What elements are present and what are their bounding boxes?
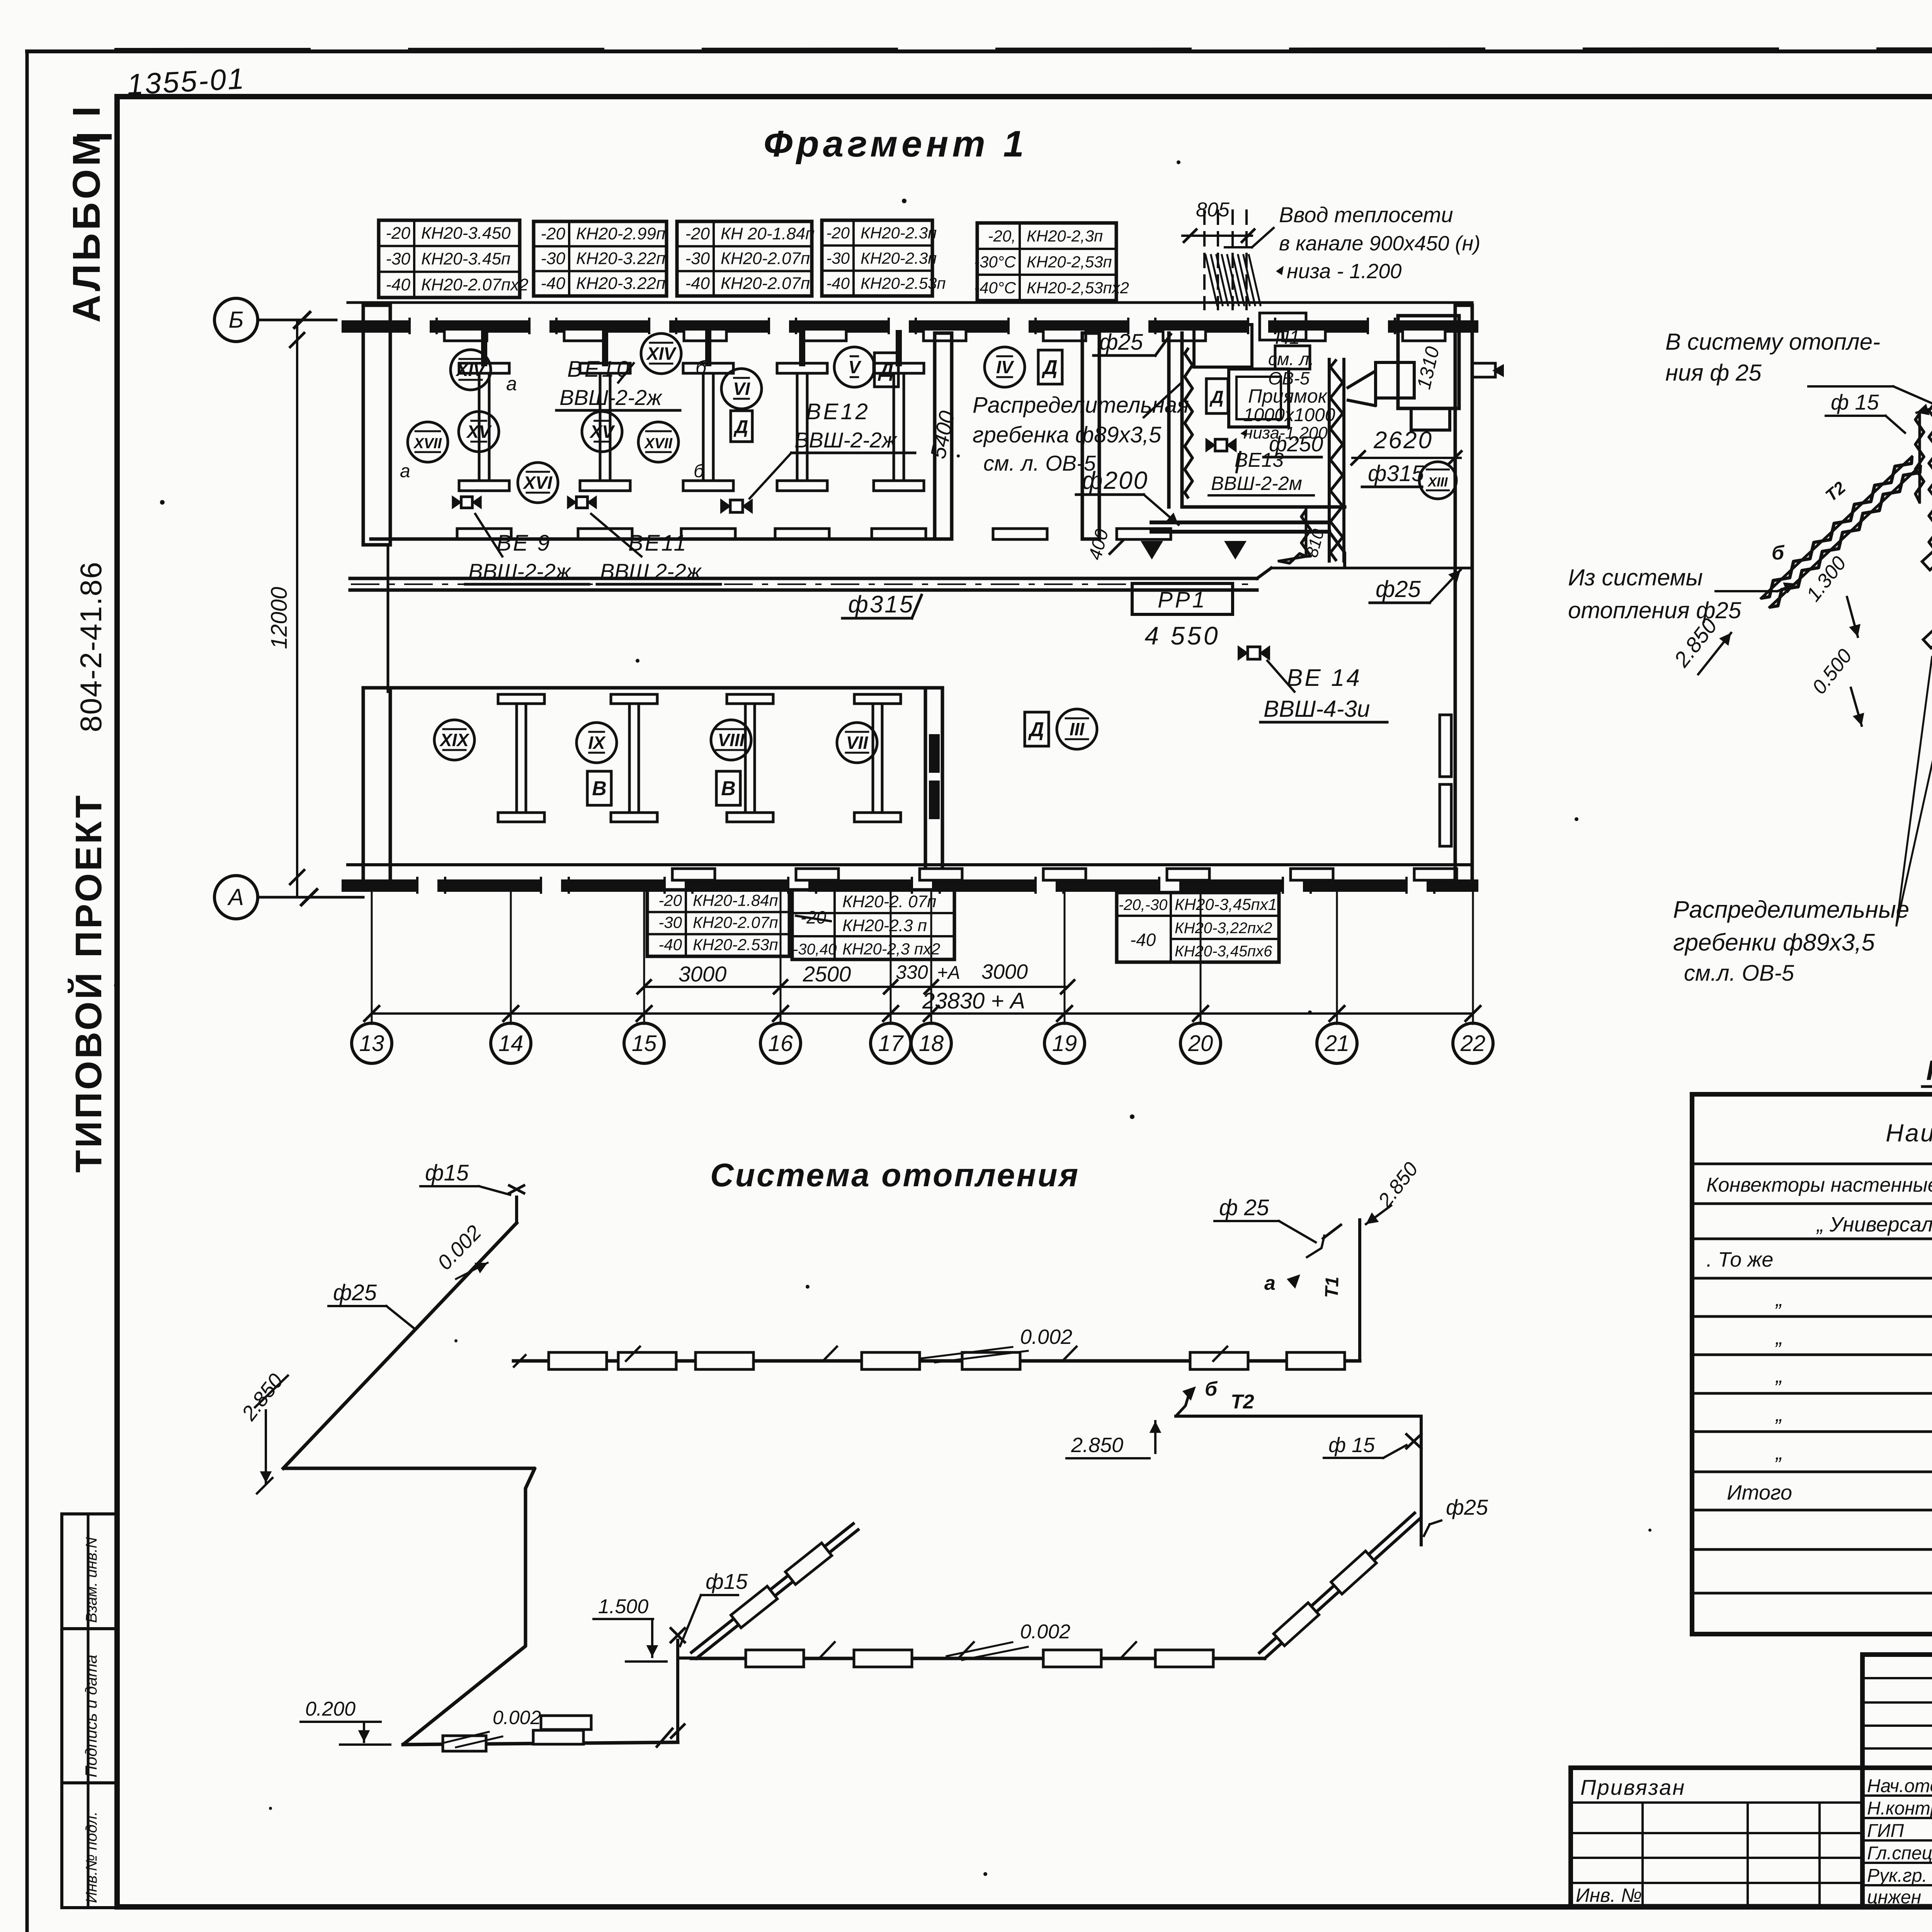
tb mini rows bbox=[1862, 1678, 1932, 1748]
label raspred grebenki bottom bbox=[1669, 575, 1932, 986]
level 0.500 rotated bbox=[1808, 645, 1864, 726]
stamp box podpis i data bbox=[62, 1629, 116, 1783]
label table 3 (KN20 list) bbox=[677, 221, 815, 296]
axis circle 21 bbox=[1317, 1023, 1357, 1063]
label T1 ots bbox=[1321, 1276, 1343, 1299]
svg-text:+А: +А bbox=[937, 963, 960, 983]
pribory row 2.99 bbox=[1775, 1364, 1932, 1387]
svg-text:КН20-3,22пх2: КН20-3,22пх2 bbox=[1175, 920, 1272, 937]
svg-text:-20,: -20, bbox=[988, 227, 1016, 245]
svg-text:КН20-2.99п: КН20-2.99п bbox=[576, 224, 665, 243]
label priyamok bbox=[1240, 385, 1335, 442]
svg-text:Нач.ото: Нач.ото bbox=[1867, 1776, 1932, 1796]
plan lower-block T-column 4 bbox=[854, 694, 901, 822]
handwritten doc number 1355-01 bbox=[126, 62, 246, 101]
label BE13 bbox=[1209, 449, 1314, 495]
axis circle 14 bbox=[491, 1023, 531, 1063]
slope 0.002 chain2 bbox=[947, 1621, 1070, 1660]
svg-text:0.002: 0.002 bbox=[1020, 1621, 1070, 1643]
svg-text:„: „ bbox=[1775, 1441, 1783, 1464]
axis B circle bbox=[214, 298, 336, 342]
svg-text:2.850: 2.850 bbox=[1071, 1434, 1123, 1457]
svg-text:б: б bbox=[1772, 542, 1785, 564]
label BE12 bbox=[750, 399, 915, 498]
svg-text:-20: -20 bbox=[826, 224, 850, 242]
ots mid vertical f15 bbox=[671, 1628, 696, 1742]
level 1.300 rotated bbox=[1802, 552, 1861, 637]
label BE11 bbox=[591, 514, 721, 584]
svg-text:Д: Д bbox=[878, 359, 894, 381]
dim 2620 bbox=[1352, 427, 1461, 464]
vvod teploseti hatch block bbox=[1206, 255, 1260, 305]
svg-text:13: 13 bbox=[359, 1031, 384, 1056]
label 400 rotated bbox=[1085, 527, 1124, 562]
svg-text:Гл.спец: Гл.спец bbox=[1867, 1843, 1932, 1864]
valve BE14 bbox=[1238, 645, 1270, 661]
svg-text:КН20-2.3п: КН20-2.3п bbox=[861, 224, 937, 242]
svg-text:см.л. ОВ-5: см.л. ОВ-5 bbox=[1684, 961, 1794, 986]
svg-text:XVII: XVII bbox=[644, 435, 673, 452]
label a branch bbox=[1917, 369, 1932, 415]
svg-text:4 550: 4 550 bbox=[1145, 621, 1220, 650]
svg-text:Д: Д bbox=[1209, 387, 1223, 407]
svg-text:Инв. №: Инв. № bbox=[1576, 1884, 1642, 1906]
svg-text:В систему отопле-: В систему отопле- bbox=[1665, 329, 1880, 355]
plan lower-block T-column 3 bbox=[727, 694, 773, 822]
svg-text:КН20-3,45пх1: КН20-3,45пх1 bbox=[1175, 895, 1277, 913]
plan lower-block T-column 1 bbox=[498, 694, 544, 822]
label raspred grebenka plan bbox=[973, 383, 1189, 475]
room circle V bbox=[834, 347, 874, 387]
svg-text:ВЕ12: ВЕ12 bbox=[806, 399, 870, 424]
left margin text TIPOVOY PROEKT bbox=[67, 793, 109, 1173]
title Fragment 1 bbox=[764, 123, 1028, 165]
axis drop lines bbox=[372, 893, 1473, 1024]
svg-text:18: 18 bbox=[919, 1031, 944, 1056]
svg-text:VI: VI bbox=[733, 379, 750, 399]
plan upper-block I-column 2 bbox=[580, 363, 630, 491]
svg-text:-40: -40 bbox=[386, 275, 410, 294]
plan left exterior wall (upper block) bbox=[363, 305, 390, 692]
dim 810 rotated bbox=[1302, 527, 1328, 559]
svg-text:-30°С: -30°С bbox=[974, 253, 1016, 271]
svg-text:Из системы: Из системы bbox=[1568, 565, 1703, 590]
svg-text:Система отопления: Система отопления bbox=[710, 1157, 1080, 1193]
svg-text:-20: -20 bbox=[386, 224, 410, 243]
label f25 right of corridor bbox=[1370, 570, 1461, 603]
unit right equipment box bbox=[1398, 316, 1459, 430]
ots top chain bbox=[514, 1359, 1360, 1363]
label f25 ots right bbox=[1424, 1495, 1488, 1536]
svg-text:КН20-3.45п: КН20-3.45п bbox=[421, 250, 510, 269]
label table 7 below plan bbox=[792, 890, 954, 959]
ots chain 2 bbox=[691, 1657, 1265, 1660]
top edge scan smudge bbox=[116, 49, 1932, 49]
plan partition wall (5400) bbox=[935, 333, 952, 539]
svg-text:см. л.: см. л. bbox=[1268, 349, 1314, 369]
svg-text:Д: Д bbox=[733, 417, 748, 437]
level 2.850 left rotated bbox=[1669, 614, 1731, 678]
svg-text:IV: IV bbox=[996, 357, 1014, 377]
svg-text:Привязан: Привязан bbox=[1580, 1775, 1685, 1799]
unit D letterbox bbox=[1206, 379, 1228, 413]
svg-text:ф25: ф25 bbox=[1099, 330, 1143, 355]
pipe zig tall vertical left bbox=[1915, 404, 1932, 562]
letter box D hall bbox=[1025, 712, 1049, 746]
label T2 on diagonal bbox=[1822, 478, 1849, 505]
unit diffuser cone bbox=[1347, 362, 1414, 406]
svg-text:16: 16 bbox=[768, 1031, 793, 1056]
letter box D room V bbox=[874, 353, 898, 387]
room circle XVII right bbox=[638, 422, 705, 481]
svg-text:ф 15: ф 15 bbox=[1328, 1434, 1375, 1457]
svg-text:цнжен: цнжен bbox=[1867, 1887, 1921, 1908]
vvod teploseti dashed channel bbox=[1204, 211, 1247, 309]
svg-text:XV: XV bbox=[589, 422, 615, 442]
label 1.500 bbox=[594, 1595, 667, 1662]
letter box D room IV bbox=[1038, 350, 1062, 384]
svg-text:20: 20 bbox=[1188, 1031, 1213, 1056]
label table 1 (KN20 list) bbox=[379, 220, 529, 298]
svg-text:22: 22 bbox=[1460, 1031, 1486, 1056]
svg-text:ф200: ф200 bbox=[1082, 466, 1148, 494]
svg-text:1.500: 1.500 bbox=[598, 1595, 648, 1618]
axis circle 15 bbox=[624, 1023, 664, 1063]
left margin text ALBOM I bbox=[65, 103, 109, 323]
svg-text:ВЕ13: ВЕ13 bbox=[1235, 449, 1284, 471]
room circle VIII bbox=[711, 720, 751, 760]
tb staff entries bbox=[1867, 1775, 1932, 1908]
level 2.850 ots bbox=[1066, 1421, 1161, 1458]
pribory table title bbox=[1922, 1055, 1932, 1087]
svg-text:ВЕ 9: ВЕ 9 bbox=[497, 531, 551, 556]
svg-text:КН20-2.07п: КН20-2.07п bbox=[721, 249, 810, 268]
ots right rising ladder bbox=[1257, 1510, 1422, 1662]
valve BE12 bbox=[720, 498, 753, 514]
axis circle 18 bbox=[911, 1023, 951, 1063]
ots bottom chain bbox=[403, 1716, 678, 1751]
label table 6 below plan bbox=[647, 890, 789, 956]
svg-text:-40°С: -40°С bbox=[974, 279, 1016, 297]
svg-text:а: а bbox=[400, 461, 410, 481]
room circle III hall bbox=[1057, 709, 1097, 749]
svg-text:0.200: 0.200 bbox=[305, 1698, 355, 1720]
ots right vertical bbox=[1420, 1416, 1423, 1545]
ots valve right bbox=[1406, 1416, 1421, 1453]
ots floor polyline bbox=[283, 1468, 535, 1745]
letter box V room IX bbox=[587, 771, 611, 805]
tb left dividers bbox=[1643, 1803, 1820, 1906]
svg-text:КН20-3.450: КН20-3.450 bbox=[421, 224, 511, 243]
svg-text:XV: XV bbox=[466, 422, 492, 442]
svg-text:19: 19 bbox=[1052, 1031, 1077, 1056]
svg-text:П1: П1 bbox=[1275, 327, 1300, 348]
svg-text:Н.контр.: Н.контр. bbox=[1867, 1798, 1932, 1819]
svg-text:XIV: XIV bbox=[646, 344, 677, 364]
svg-text:XIX: XIX bbox=[439, 730, 469, 750]
svg-text:КН20-3,45пх6: КН20-3,45пх6 bbox=[1175, 943, 1272, 960]
svg-text:б: б bbox=[696, 357, 707, 378]
svg-text:-30,40: -30,40 bbox=[793, 941, 837, 958]
axis circle 19 bbox=[1044, 1023, 1085, 1063]
svg-text:Рук.гр.: Рук.гр. bbox=[1867, 1866, 1927, 1886]
valve BE11 bbox=[567, 495, 597, 509]
svg-text:КН20-2.07п: КН20-2.07п bbox=[693, 913, 778, 932]
ots main diagonal bbox=[283, 1223, 517, 1468]
label BE14 bbox=[1260, 661, 1387, 722]
svg-text:Б: Б bbox=[228, 307, 243, 333]
svg-text:21: 21 bbox=[1324, 1031, 1350, 1056]
unit zig vertical wall hatch bbox=[1185, 348, 1192, 498]
room circle XIX bbox=[434, 720, 474, 760]
unit elbow to f25 bbox=[1329, 532, 1345, 568]
room circle XV right bbox=[582, 412, 622, 452]
pribory row itogo bbox=[1727, 1481, 1932, 1504]
svg-text:В: В bbox=[592, 777, 607, 800]
unit central riser double bbox=[1329, 359, 1344, 561]
svg-text:3000: 3000 bbox=[679, 962, 727, 986]
plan right wall radiators bbox=[1440, 715, 1451, 846]
label f15 top left bbox=[420, 1160, 510, 1195]
svg-text:-40: -40 bbox=[541, 274, 565, 293]
svg-text:VII: VII bbox=[846, 733, 868, 753]
svg-text:см. л. ОВ-5: см. л. ОВ-5 bbox=[983, 451, 1096, 475]
axis circle 16 bbox=[760, 1023, 801, 1063]
svg-text:-40: -40 bbox=[685, 274, 710, 293]
svg-text:-40: -40 bbox=[658, 935, 682, 954]
svg-text:КН20-2. 07п: КН20-2. 07п bbox=[842, 892, 936, 911]
label v sistemu otopleniya bbox=[1665, 329, 1932, 405]
svg-text:„: „ bbox=[1775, 1403, 1783, 1426]
level 2.850 ots tr bbox=[1352, 1158, 1423, 1227]
svg-text:КН20-2,3 пх2: КН20-2,3 пх2 bbox=[842, 940, 940, 958]
label BE10 bbox=[556, 357, 680, 410]
room circle VII bbox=[837, 723, 877, 763]
pribory row konvektory bbox=[1706, 1174, 1932, 1196]
svg-text:-20,-30: -20,-30 bbox=[1119, 896, 1168, 913]
label table 4 (KN20 list) bbox=[822, 220, 946, 296]
level 0.200 bl bbox=[301, 1698, 390, 1745]
svg-text:1000х1000: 1000х1000 bbox=[1243, 405, 1335, 425]
svg-text:0.002: 0.002 bbox=[493, 1707, 541, 1728]
svg-text:330: 330 bbox=[896, 961, 928, 983]
svg-text:а: а bbox=[1264, 1272, 1276, 1294]
svg-text:ВЕ 14: ВЕ 14 bbox=[1287, 665, 1362, 691]
svg-text:XVII: XVII bbox=[413, 435, 442, 452]
tb left rows bbox=[1571, 1803, 1862, 1883]
svg-text:1355-01: 1355-01 bbox=[126, 62, 246, 101]
svg-text:2500: 2500 bbox=[803, 962, 851, 986]
label b ots bbox=[1205, 1378, 1218, 1400]
pribory row 3.45 bbox=[1775, 1441, 1932, 1464]
svg-text:14: 14 bbox=[498, 1031, 524, 1056]
title heating system bbox=[710, 1157, 1080, 1193]
svg-text:ф15: ф15 bbox=[425, 1160, 469, 1185]
svg-text:ТИПОВОЙ ПРОЕКТ: ТИПОВОЙ ПРОЕКТ bbox=[67, 793, 109, 1173]
slope 0.002 bl bbox=[444, 1707, 541, 1747]
plan partition wall 2 bbox=[1082, 333, 1099, 539]
svg-text:Итого: Итого bbox=[1727, 1481, 1792, 1504]
pribory row 3.22 bbox=[1775, 1403, 1932, 1426]
svg-text:-30: -30 bbox=[826, 249, 850, 267]
room circle XVII left bbox=[400, 422, 448, 481]
svg-text:ния ф 25: ния ф 25 bbox=[1665, 360, 1762, 386]
svg-text:ВВШ 2-2ж: ВВШ 2-2ж bbox=[600, 559, 702, 583]
svg-text:„: „ bbox=[1775, 1364, 1783, 1387]
svg-text:Т1: Т1 bbox=[1321, 1276, 1343, 1299]
plan lower-block left wall bbox=[363, 688, 390, 889]
svg-text:гребенка ф89х3,5: гребенка ф89х3,5 bbox=[973, 422, 1162, 447]
svg-text:„: „ bbox=[1775, 1287, 1783, 1311]
ots top vertical + valve bbox=[509, 1185, 524, 1223]
svg-text:Фрагмент 1: Фрагмент 1 bbox=[764, 123, 1028, 165]
svg-text:Приямок: Приямок bbox=[1248, 385, 1328, 407]
svg-text:КН20-2.07п: КН20-2.07п bbox=[721, 274, 810, 293]
svg-text:а: а bbox=[506, 373, 517, 395]
svg-text:низа - 1.200: низа - 1.200 bbox=[1287, 260, 1401, 283]
sub dim line bbox=[638, 980, 1074, 993]
tb bottom line bbox=[1571, 1904, 1932, 1909]
tb mid full line bbox=[1571, 1765, 1932, 1770]
tb label inv no bbox=[1576, 1884, 1642, 1906]
svg-text:2620: 2620 bbox=[1373, 427, 1433, 454]
label b on diagonal bbox=[1772, 542, 1785, 564]
ots top chain radiators bbox=[514, 1347, 1345, 1369]
plan top exterior wall bbox=[348, 303, 1472, 333]
svg-text:-30: -30 bbox=[541, 249, 565, 268]
svg-text:-20: -20 bbox=[658, 891, 682, 909]
room circle XIV a bbox=[451, 350, 517, 395]
svg-text:КН20-2,53п: КН20-2,53п bbox=[1027, 253, 1112, 271]
plan upper-block wall stub row bbox=[484, 333, 899, 363]
svg-text:ГИП: ГИП bbox=[1867, 1821, 1904, 1841]
letter box D small bbox=[731, 411, 752, 442]
label P1 bbox=[1268, 327, 1314, 388]
svg-text:ф315: ф315 bbox=[848, 591, 914, 618]
unit room walls bbox=[1169, 333, 1345, 507]
plan bottom wall convectors bbox=[672, 869, 1457, 880]
svg-text:ф25: ф25 bbox=[333, 1280, 377, 1305]
dim 12000 vertical bbox=[267, 320, 304, 897]
tb left border bbox=[1568, 1768, 1573, 1906]
label BE9 bbox=[465, 514, 589, 584]
plan lower-block top wall bbox=[371, 686, 935, 690]
plan corridor pipe line f315 bbox=[350, 568, 1472, 590]
svg-text:в канале 900х450 (н): в канале 900х450 (н) bbox=[1279, 232, 1480, 255]
svg-text:Конвекторы настенные проходн: Конвекторы настенные проходные типа bbox=[1706, 1174, 1932, 1196]
label f15 ots right bbox=[1324, 1434, 1406, 1458]
svg-text:ф15: ф15 bbox=[706, 1569, 748, 1594]
svg-text:-30: -30 bbox=[386, 250, 410, 269]
svg-text:ВВШ-2-2ж: ВВШ-2-2ж bbox=[794, 428, 898, 452]
unit right wall stub bbox=[1472, 363, 1504, 377]
unit elbow zig pipe bbox=[1279, 510, 1311, 563]
svg-text:КН20-2.3п: КН20-2.3п bbox=[861, 249, 937, 267]
label f315 boxed bbox=[842, 591, 922, 618]
svg-text:23830 + А: 23830 + А bbox=[922, 988, 1025, 1014]
axis circle 17 bbox=[871, 1023, 911, 1063]
svg-text:КН20-2.53п: КН20-2.53п bbox=[861, 274, 946, 293]
svg-text:Наименование: Наименование bbox=[1886, 1119, 1932, 1147]
svg-text:Д: Д bbox=[1041, 356, 1058, 379]
grebenka bar 1 bbox=[1907, 442, 1932, 570]
svg-text:РР1: РР1 bbox=[1158, 587, 1207, 612]
plan lower-block partition bbox=[925, 688, 942, 889]
ots slanted ladder mid bbox=[689, 1520, 861, 1662]
slope 0.002 top chain bbox=[920, 1325, 1072, 1362]
svg-text:Д: Д bbox=[1028, 718, 1044, 741]
svg-text:ф315: ф315 bbox=[1368, 461, 1424, 486]
svg-text:КН20-3.22п: КН20-3.22п bbox=[576, 274, 665, 293]
ots chain 2 radiators bbox=[746, 1642, 1213, 1667]
plan right exterior wall bbox=[1455, 305, 1472, 886]
plan upper-block I-column 1 bbox=[459, 363, 509, 491]
svg-text:КН20-3.22п: КН20-3.22п bbox=[576, 249, 665, 268]
room circle IX bbox=[577, 723, 617, 763]
pribory row universal bbox=[1816, 1213, 1932, 1236]
svg-text:„ Универсал-20”: „ Универсал-20” bbox=[1816, 1213, 1932, 1236]
svg-text:Инв.№ подл.: Инв.№ подл. bbox=[83, 1811, 100, 1903]
plan upper-block I-column 5 bbox=[874, 363, 924, 491]
unit bottom drain line bbox=[1141, 522, 1329, 560]
svg-text:-40: -40 bbox=[1130, 930, 1156, 950]
label f315 unit bbox=[1362, 461, 1424, 487]
svg-text:КН20-2,3п: КН20-2,3п bbox=[1027, 227, 1103, 245]
room circle XIII bbox=[1419, 462, 1456, 499]
svg-text:ф 15: ф 15 bbox=[1831, 390, 1879, 414]
label f25 plan boxed bbox=[1094, 330, 1171, 355]
grebenka bar 2 bbox=[1908, 519, 1932, 648]
letter box V room VIII bbox=[716, 771, 740, 805]
label table 8 below plan bbox=[1117, 893, 1279, 962]
valve BE9 bbox=[452, 495, 481, 509]
svg-text:отопления ф25: отопления ф25 bbox=[1568, 597, 1742, 623]
svg-text:-30: -30 bbox=[685, 249, 710, 268]
svg-text:XIII: XIII bbox=[1427, 475, 1448, 490]
svg-text:ф 25: ф 25 bbox=[1219, 1195, 1269, 1220]
svg-text:„: „ bbox=[1775, 1326, 1783, 1349]
axis A circle bbox=[214, 876, 363, 919]
pribory header bbox=[1886, 1096, 1932, 1159]
svg-text:IX: IX bbox=[588, 733, 606, 753]
label iz sistemy otopleniya bbox=[1568, 565, 1796, 623]
svg-text:ф25: ф25 bbox=[1376, 576, 1421, 602]
label 5400 rotated bbox=[925, 409, 959, 461]
svg-text:КН20-1.84п: КН20-1.84п bbox=[693, 891, 778, 909]
tb label privyazan bbox=[1580, 1775, 1685, 1799]
plan bottom exterior wall bbox=[348, 865, 1472, 893]
pribory row to zhe bbox=[1706, 1248, 1932, 1271]
stamp box inv N podl bbox=[62, 1783, 116, 1908]
svg-text:КН20-2.53п: КН20-2.53п bbox=[693, 935, 778, 954]
ots top right corner bbox=[1306, 1220, 1360, 1361]
axis circle 22 bbox=[1453, 1023, 1493, 1063]
unit pit (priyamok) square bbox=[1229, 369, 1289, 427]
axis circle 13 bbox=[352, 1023, 392, 1063]
label a ots bbox=[1264, 1272, 1300, 1294]
label table 5 (KN20 list) bbox=[974, 223, 1129, 301]
svg-text:А: А bbox=[227, 884, 244, 910]
valve BE13 bbox=[1206, 438, 1237, 452]
room circle VI bbox=[721, 369, 762, 409]
svg-text:17: 17 bbox=[878, 1031, 904, 1056]
tb v sig left bbox=[1860, 1655, 1865, 1906]
svg-text:гребенки ф89х3,5: гребенки ф89х3,5 bbox=[1673, 929, 1875, 956]
tb staff rows bbox=[1862, 1796, 1932, 1885]
svg-text:Ввод теплосети: Ввод теплосети bbox=[1279, 202, 1453, 227]
label f25 ots top bbox=[1214, 1195, 1316, 1242]
svg-text:ф25: ф25 bbox=[1446, 1495, 1488, 1519]
